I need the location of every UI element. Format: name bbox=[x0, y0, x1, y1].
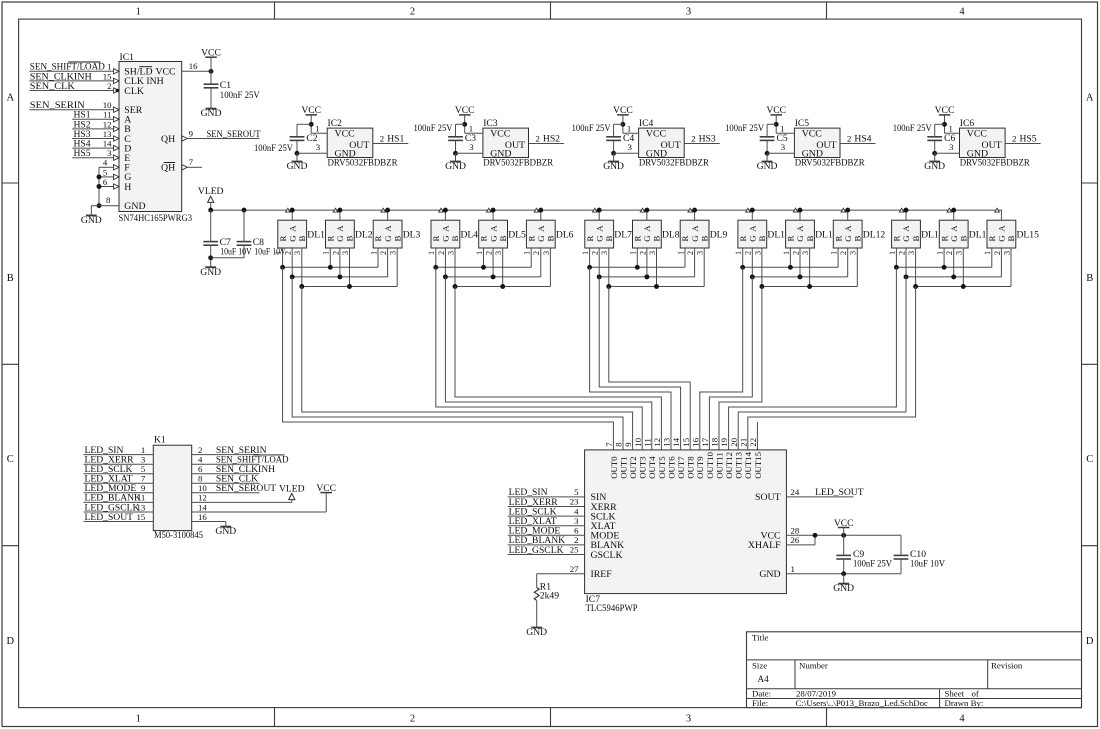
wire bus group2 R bbox=[433, 265, 531, 270]
wire LED_SOUT to K1 pin 15 bbox=[84, 521, 154, 523]
svg-text:OUT5: OUT5 bbox=[657, 456, 667, 479]
wire K1 pin 12 to VLED bbox=[192, 501, 292, 503]
svg-text:A: A bbox=[642, 225, 652, 232]
wire DL14 pins to bus bbox=[944, 248, 963, 287]
svg-text:20: 20 bbox=[729, 437, 739, 446]
ground (IC1) bbox=[81, 215, 102, 226]
net label LED_MODE (K1) bbox=[85, 483, 137, 494]
wire LED_BLANK to IC7 bbox=[508, 544, 585, 546]
svg-text:DL12: DL12 bbox=[863, 229, 886, 240]
svg-text:OUT9: OUT9 bbox=[695, 456, 705, 479]
svg-text:OUT2: OUT2 bbox=[628, 456, 638, 478]
net label LED_XLAT (K1) bbox=[85, 474, 133, 485]
svg-text:IC5: IC5 bbox=[795, 118, 810, 129]
svg-text:DL7: DL7 bbox=[614, 229, 632, 240]
LED DL15 bbox=[983, 208, 1039, 255]
svg-text:A: A bbox=[997, 225, 1007, 232]
net label LED_SIN (K1) bbox=[85, 445, 124, 456]
svg-text:LED_SOUT: LED_SOUT bbox=[815, 487, 864, 498]
svg-text:3: 3 bbox=[494, 251, 503, 255]
svg-text:HS2: HS2 bbox=[543, 134, 560, 145]
net label SEN_CLKINH bbox=[30, 71, 92, 82]
svg-text:3: 3 bbox=[446, 251, 455, 255]
svg-text:VCC: VCC bbox=[834, 518, 854, 529]
svg-text:GND: GND bbox=[81, 215, 102, 226]
svg-text:3: 3 bbox=[600, 251, 609, 255]
svg-text:GND: GND bbox=[445, 161, 466, 172]
svg-text:7: 7 bbox=[189, 157, 194, 167]
capacitor C2 100nF 25V bbox=[254, 133, 318, 154]
power symbol VCC (IC3) bbox=[455, 105, 475, 133]
svg-text:HS4: HS4 bbox=[854, 134, 871, 145]
power symbol VCC (IC5) bbox=[766, 105, 786, 133]
svg-text:B: B bbox=[757, 236, 767, 242]
svg-text:GND: GND bbox=[124, 201, 145, 212]
wire bus group1 R bbox=[280, 265, 378, 270]
svg-text:7: 7 bbox=[604, 442, 614, 447]
svg-text:27: 27 bbox=[570, 564, 579, 574]
svg-text:6: 6 bbox=[103, 177, 108, 187]
wire K1 pin 2 SEN_SERIN bbox=[192, 454, 260, 456]
svg-text:G: G bbox=[594, 235, 604, 242]
svg-text:G: G bbox=[901, 235, 911, 242]
svg-text:10uF 10V: 10uF 10V bbox=[220, 247, 252, 258]
svg-text:G: G bbox=[949, 235, 959, 242]
wire DL3 pins to bus bbox=[378, 248, 397, 287]
svg-text:3: 3 bbox=[753, 251, 762, 255]
svg-text:XHALF: XHALF bbox=[748, 540, 781, 551]
ground (C1) bbox=[201, 108, 222, 119]
svg-text:A: A bbox=[536, 225, 546, 232]
svg-text:R: R bbox=[326, 236, 336, 242]
shift register IC1 SN74HC165PWRG3 bbox=[119, 52, 193, 224]
wire DL6 pins to bus bbox=[531, 248, 550, 287]
svg-text:1: 1 bbox=[888, 251, 897, 255]
wire bus group1 G bbox=[290, 274, 388, 279]
svg-text:C:\Users\..\P013_Brazo_Led.Sch: C:\Users\..\P013_Brazo_Led.SchDoc bbox=[796, 698, 929, 708]
svg-text:2k49: 2k49 bbox=[540, 591, 559, 602]
ground (R1) bbox=[526, 627, 547, 638]
wire HS5 to IC1 pin bbox=[72, 157, 113, 159]
ground (IC3) bbox=[445, 161, 466, 172]
wire IC5 OUT to HS4 bbox=[840, 143, 876, 145]
svg-text:A: A bbox=[901, 225, 911, 232]
wire DL5 pins to bus bbox=[484, 248, 503, 287]
LED DL3 bbox=[369, 208, 420, 255]
svg-text:100nF 25V: 100nF 25V bbox=[893, 123, 932, 134]
svg-text:R: R bbox=[680, 236, 690, 242]
svg-text:DL1: DL1 bbox=[307, 229, 325, 240]
svg-text:QH: QH bbox=[161, 134, 175, 145]
svg-text:3: 3 bbox=[1002, 251, 1011, 255]
svg-text:C: C bbox=[7, 454, 14, 465]
svg-text:SEN_SEROUT: SEN_SEROUT bbox=[216, 483, 276, 494]
wire bus group5 B bbox=[913, 284, 1011, 289]
svg-text:CLK: CLK bbox=[124, 86, 144, 97]
wire IC3 pin 3 to ground bbox=[453, 140, 483, 161]
svg-text:1: 1 bbox=[136, 7, 141, 18]
svg-text:DL3: DL3 bbox=[403, 229, 421, 240]
svg-text:4: 4 bbox=[574, 506, 579, 516]
svg-text:C6: C6 bbox=[944, 133, 955, 144]
svg-text:15: 15 bbox=[137, 512, 146, 522]
wire SEN_CLKINH to IC1 pin 15 bbox=[29, 80, 113, 82]
svg-text:2: 2 bbox=[847, 134, 851, 144]
IC1 pin direction arrows bbox=[114, 69, 188, 190]
svg-text:B: B bbox=[7, 273, 14, 284]
svg-text:9: 9 bbox=[623, 442, 633, 447]
svg-text:2: 2 bbox=[536, 134, 540, 144]
hall sensor IC5 DRV5032FBDBZR bbox=[794, 118, 865, 169]
wire VCC to IC6 pin 1 bbox=[935, 122, 960, 137]
svg-text:11: 11 bbox=[137, 493, 145, 503]
wire SEN_SERIN to IC1 pin 10 bbox=[29, 109, 113, 111]
net label LED_XERR bbox=[509, 497, 559, 508]
svg-text:SN74HC165PWRG3: SN74HC165PWRG3 bbox=[119, 213, 193, 224]
svg-text:OUT15: OUT15 bbox=[753, 451, 763, 478]
wire bus group3 G bbox=[597, 274, 695, 279]
svg-text:14: 14 bbox=[103, 139, 112, 149]
net label LED_MODE bbox=[509, 526, 561, 537]
svg-text:IC4: IC4 bbox=[639, 118, 654, 129]
wire LED_XLAT to K1 pin 7 bbox=[84, 482, 154, 484]
svg-text:G: G bbox=[335, 235, 345, 242]
net label SEN_CLKINH (K1) bbox=[216, 464, 275, 475]
svg-text:3: 3 bbox=[107, 148, 112, 158]
title block bbox=[747, 632, 1082, 708]
wire IC7 SOUT LED_SOUT bbox=[786, 496, 853, 498]
wire K1 pin 4 SEN_SHIFT/LOAD bbox=[192, 463, 260, 465]
svg-text:A: A bbox=[1086, 92, 1094, 103]
svg-text:B: B bbox=[1006, 236, 1016, 242]
svg-text:2: 2 bbox=[380, 134, 384, 144]
wire K1 pin 16 to ground bbox=[192, 522, 226, 527]
hall sensor IC6 DRV5032FBDBZR bbox=[960, 118, 1031, 169]
wire bus group3 R bbox=[587, 265, 685, 270]
svg-text:IC3: IC3 bbox=[483, 118, 498, 129]
svg-text:19: 19 bbox=[719, 437, 729, 446]
svg-text:OUT14: OUT14 bbox=[743, 451, 753, 478]
svg-text:G: G bbox=[287, 235, 297, 242]
LED DL12 bbox=[830, 208, 886, 255]
svg-text:R: R bbox=[431, 236, 441, 242]
svg-text:G: G bbox=[383, 235, 393, 242]
svg-text:3: 3 bbox=[849, 251, 858, 255]
net label LED_SOUT (K1) bbox=[85, 512, 134, 523]
svg-text:1: 1 bbox=[322, 251, 331, 255]
wire DL4 pins to bus bbox=[436, 248, 455, 287]
svg-text:A: A bbox=[795, 225, 805, 232]
wire IC7 GND net bbox=[786, 571, 901, 583]
capacitor C7 10uF 10V bbox=[203, 210, 251, 267]
svg-text:3: 3 bbox=[686, 714, 691, 725]
capacitor C3 100nF 25V bbox=[414, 123, 477, 144]
svg-text:14: 14 bbox=[671, 437, 681, 446]
svg-text:VCC: VCC bbox=[455, 105, 475, 116]
net label LED_BLANK bbox=[509, 535, 566, 546]
capacitor C4 100nF 25V bbox=[572, 123, 635, 144]
svg-text:IC6: IC6 bbox=[960, 118, 975, 129]
wire bus group1 B bbox=[299, 284, 397, 289]
svg-text:OUT7: OUT7 bbox=[676, 456, 686, 479]
svg-text:GND: GND bbox=[335, 148, 356, 159]
wire IC3 OUT to HS2 bbox=[529, 143, 565, 145]
LED DL8 bbox=[629, 208, 680, 255]
wire LED_MODE to IC7 bbox=[508, 534, 585, 536]
wire LED_SIN to K1 pin 1 bbox=[84, 454, 154, 456]
IC4 pin numbers bbox=[627, 124, 696, 153]
svg-text:GND: GND bbox=[802, 148, 823, 159]
net label LED_SIN bbox=[509, 487, 548, 498]
wire VLED rail bbox=[208, 208, 1002, 213]
svg-text:IREF: IREF bbox=[591, 569, 613, 580]
svg-text:3: 3 bbox=[696, 251, 705, 255]
svg-text:1: 1 bbox=[629, 251, 638, 255]
capacitor C9 100nF 25V bbox=[836, 535, 892, 573]
wire SEN_SHIFT/LOAD to IC1 pin 1 bbox=[29, 70, 113, 72]
wire net OUT0 DL group to IC7 pin 7 bbox=[283, 267, 614, 450]
svg-text:17: 17 bbox=[700, 437, 710, 446]
svg-text:16: 16 bbox=[690, 437, 700, 446]
svg-text:VCC: VCC bbox=[613, 105, 633, 116]
svg-text:2: 2 bbox=[1012, 134, 1016, 144]
ground (IC5) bbox=[757, 161, 778, 172]
svg-text:C2: C2 bbox=[306, 133, 317, 144]
power symbol VCC (IC1) bbox=[201, 48, 221, 72]
wire DL9 pins to bus bbox=[685, 248, 704, 287]
svg-text:A: A bbox=[488, 225, 498, 232]
wire LED_XERR to K1 pin 3 bbox=[84, 463, 154, 465]
svg-text:12: 12 bbox=[103, 119, 112, 129]
svg-text:R: R bbox=[939, 236, 949, 242]
svg-text:B: B bbox=[392, 236, 402, 242]
LED DL2 bbox=[322, 208, 373, 255]
wire LED_BLANK to K1 pin 11 bbox=[84, 501, 154, 503]
svg-text:2: 2 bbox=[945, 251, 954, 255]
net label LED_SCLK bbox=[509, 506, 557, 517]
capacitor C6 100nF 25V bbox=[893, 123, 956, 144]
svg-text:H: H bbox=[124, 182, 131, 193]
svg-text:5: 5 bbox=[103, 167, 108, 177]
svg-text:18: 18 bbox=[710, 437, 720, 446]
svg-text:R: R bbox=[278, 236, 288, 242]
svg-text:100nF 25V: 100nF 25V bbox=[572, 123, 611, 134]
wire net OUT13 DL group to IC7 pin 20 bbox=[738, 277, 906, 450]
wire net OUT3 DL group to IC7 pin 10 bbox=[436, 267, 642, 450]
ground (IC6) bbox=[924, 161, 945, 172]
wire IC1 pin 16 to VCC bbox=[182, 69, 214, 74]
svg-text:1: 1 bbox=[274, 251, 283, 255]
svg-text:B: B bbox=[699, 236, 709, 242]
svg-text:100nF 25V: 100nF 25V bbox=[853, 559, 892, 570]
svg-text:8: 8 bbox=[198, 474, 203, 484]
svg-text:100nF 25V: 100nF 25V bbox=[414, 123, 453, 134]
wire bus group5 R bbox=[894, 265, 992, 270]
LED DL7 bbox=[581, 208, 632, 255]
wire bus group4 G bbox=[750, 274, 848, 279]
svg-text:DL8: DL8 bbox=[662, 229, 680, 240]
svg-text:2: 2 bbox=[897, 251, 906, 255]
svg-text:4: 4 bbox=[959, 7, 965, 18]
power symbol VCC (IC7) bbox=[834, 518, 854, 536]
wire net OUT14 DL group to IC7 pin 21 bbox=[748, 287, 916, 450]
power symbol VCC (IC2) bbox=[301, 105, 321, 133]
capacitor C10 10uF 10V bbox=[894, 535, 945, 573]
power symbol VLED (rail) bbox=[198, 186, 224, 210]
svg-text:2: 2 bbox=[107, 81, 111, 91]
net label SEN_CLK bbox=[30, 81, 75, 92]
svg-text:B: B bbox=[450, 236, 460, 242]
wire DL12 pins to bus bbox=[838, 248, 857, 287]
net label HS4 bbox=[854, 134, 871, 145]
svg-text:1: 1 bbox=[791, 564, 795, 574]
svg-text:7: 7 bbox=[141, 474, 146, 484]
svg-text:B: B bbox=[1086, 273, 1093, 284]
IC5 pin numbers bbox=[780, 124, 851, 153]
svg-text:A: A bbox=[594, 225, 604, 232]
svg-text:1: 1 bbox=[676, 251, 685, 255]
wire K1 pin 6 SEN_CLKINH bbox=[192, 473, 260, 475]
net label SEN_SERIN (K1) bbox=[216, 445, 267, 456]
svg-text:1: 1 bbox=[983, 251, 992, 255]
svg-text:A: A bbox=[748, 225, 758, 232]
svg-text:B: B bbox=[853, 236, 863, 242]
svg-text:IC1: IC1 bbox=[120, 52, 135, 63]
svg-text:2: 2 bbox=[638, 251, 647, 255]
power symbol VCC (K1) bbox=[316, 483, 336, 494]
wire net OUT4 DL group to IC7 pin 11 bbox=[445, 277, 651, 450]
svg-text:100nF 25V: 100nF 25V bbox=[725, 123, 764, 134]
svg-text:Size: Size bbox=[752, 660, 767, 670]
svg-text:13: 13 bbox=[137, 502, 146, 512]
wire IC7 pin 22 stub bbox=[756, 422, 758, 450]
svg-text:1: 1 bbox=[427, 251, 436, 255]
svg-text:28: 28 bbox=[791, 526, 800, 536]
power symbol VCC (IC4) bbox=[613, 105, 633, 133]
svg-text:23: 23 bbox=[570, 497, 579, 507]
svg-text:2: 2 bbox=[198, 445, 202, 455]
wire bus group4 R bbox=[740, 265, 838, 270]
svg-text:LED_GSCLK: LED_GSCLK bbox=[509, 545, 564, 556]
svg-text:1: 1 bbox=[936, 251, 945, 255]
connector K1 M50-3100845 bbox=[153, 435, 203, 541]
svg-text:VCC: VCC bbox=[935, 105, 955, 116]
capacitor C1 100nF 25V bbox=[204, 71, 260, 108]
net label HS2 bbox=[74, 119, 91, 130]
svg-text:3: 3 bbox=[801, 251, 810, 255]
svg-text:SEN_SEROUT: SEN_SEROUT bbox=[207, 129, 261, 140]
wire net OUT8 DL group to IC7 pin 15 bbox=[609, 287, 690, 450]
svg-text:10uF 10V: 10uF 10V bbox=[910, 559, 945, 570]
svg-text:A4: A4 bbox=[758, 674, 770, 684]
svg-text:1: 1 bbox=[141, 445, 145, 455]
net label LED_GSCLK (K1) bbox=[85, 502, 140, 513]
net label SEN_SEROUT bbox=[207, 129, 261, 140]
svg-text:25: 25 bbox=[570, 545, 579, 555]
svg-text:GND: GND bbox=[757, 161, 778, 172]
wire net OUT12 DL group to IC7 pin 19 bbox=[729, 267, 897, 450]
svg-text:OUT10: OUT10 bbox=[705, 451, 715, 478]
svg-text:4: 4 bbox=[198, 455, 203, 465]
svg-text:15: 15 bbox=[681, 437, 691, 446]
svg-text:D: D bbox=[1086, 636, 1094, 647]
svg-text:VCC: VCC bbox=[301, 105, 321, 116]
LED DL1 bbox=[274, 208, 325, 255]
ground (C7 C8) bbox=[200, 267, 221, 278]
net label LED_BLANK (K1) bbox=[85, 493, 142, 504]
svg-text:D: D bbox=[7, 636, 15, 647]
LED driver IC7 TLC5946PWP bbox=[585, 450, 787, 614]
svg-text:2: 2 bbox=[485, 251, 494, 255]
ground (K1) bbox=[215, 526, 236, 537]
svg-text:2: 2 bbox=[437, 251, 446, 255]
svg-text:1: 1 bbox=[581, 251, 590, 255]
capacitor C8 10uF 10V bbox=[211, 210, 286, 258]
svg-text:5: 5 bbox=[574, 487, 579, 497]
IC6 pin numbers bbox=[949, 124, 1017, 153]
svg-text:2: 2 bbox=[686, 251, 695, 255]
wire bus group2 B bbox=[453, 284, 551, 289]
net label LED_SCLK (K1) bbox=[85, 464, 133, 475]
svg-text:R: R bbox=[833, 236, 843, 242]
svg-text:3: 3 bbox=[341, 251, 350, 255]
wire net OUT7 DL group to IC7 pin 14 bbox=[599, 277, 680, 450]
wire net OUT10 DL group to IC7 pin 17 bbox=[709, 277, 752, 450]
svg-text:OUT0: OUT0 bbox=[609, 456, 619, 479]
resistor R1 2k49 bbox=[534, 582, 559, 628]
svg-text:GND: GND bbox=[200, 267, 221, 278]
svg-text:A: A bbox=[335, 225, 345, 232]
svg-text:2: 2 bbox=[532, 251, 541, 255]
svg-text:GND: GND bbox=[215, 526, 236, 537]
svg-text:14: 14 bbox=[198, 502, 207, 512]
svg-text:R: R bbox=[633, 236, 643, 242]
svg-text:B: B bbox=[805, 236, 815, 242]
svg-text:SEN_CLK: SEN_CLK bbox=[30, 81, 75, 92]
wire VCC to IC2 pin 1 bbox=[297, 122, 327, 137]
wire IC2 pin 3 to ground bbox=[295, 140, 328, 161]
svg-text:2: 2 bbox=[993, 251, 1002, 255]
svg-text:VCC: VCC bbox=[766, 105, 786, 116]
LED DL10 bbox=[734, 208, 790, 255]
svg-text:LED_SOUT: LED_SOUT bbox=[85, 512, 134, 523]
wire net OUT6 DL group to IC7 pin 13 bbox=[590, 267, 671, 450]
svg-text:GND: GND bbox=[967, 148, 988, 159]
svg-text:R: R bbox=[479, 236, 489, 242]
wire IC2 OUT to HS1 bbox=[373, 143, 409, 145]
svg-text:12: 12 bbox=[198, 493, 207, 503]
wire DL11 pins to bus bbox=[790, 248, 809, 287]
svg-text:GND: GND bbox=[526, 627, 547, 638]
svg-text:2: 2 bbox=[791, 251, 800, 255]
svg-text:DL4: DL4 bbox=[461, 229, 479, 240]
svg-text:VCC: VCC bbox=[646, 129, 666, 140]
wire DL7 pins to bus bbox=[590, 248, 609, 287]
svg-text:OUT1: OUT1 bbox=[618, 456, 628, 478]
svg-text:4: 4 bbox=[103, 158, 108, 168]
svg-text:2: 2 bbox=[410, 7, 415, 18]
wire LED_GSCLK to K1 pin 13 bbox=[84, 511, 154, 513]
svg-text:GND: GND bbox=[924, 161, 945, 172]
wire VCC to IC4 pin 1 bbox=[614, 122, 639, 137]
svg-text:R: R bbox=[987, 236, 997, 242]
IC3 pin numbers bbox=[469, 124, 540, 153]
svg-text:13: 13 bbox=[103, 129, 112, 139]
ground (IC2) bbox=[287, 161, 308, 172]
svg-text:C3: C3 bbox=[465, 133, 476, 144]
svg-text:Revision: Revision bbox=[991, 660, 1023, 670]
wire LED_XLAT to IC7 bbox=[508, 525, 585, 527]
